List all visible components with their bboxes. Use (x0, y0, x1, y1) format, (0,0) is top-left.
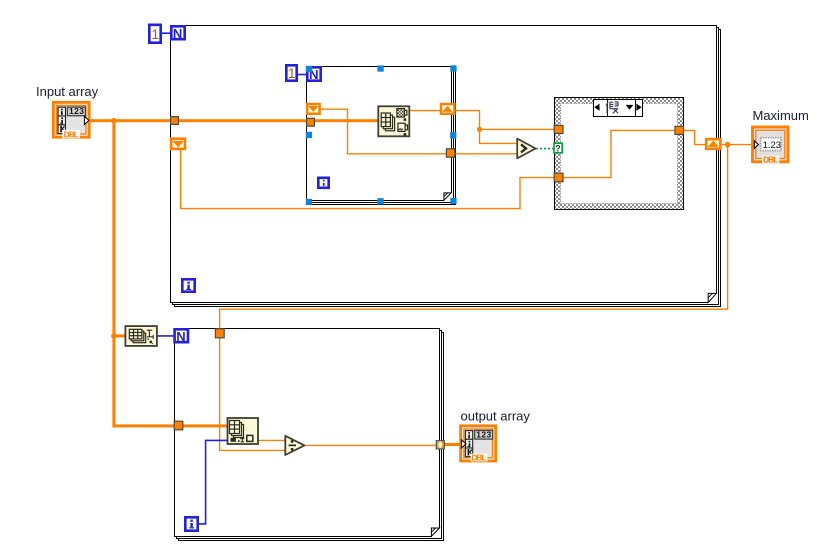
wire Max-Min icon output to right shift register (410, 110, 441, 112)
wire blue const 1 to N inner (298, 74, 307, 76)
wire branch down to greater top input (480, 129, 517, 143)
svg-text:1: 1 (288, 66, 296, 81)
wire green dotted greater output to case selector (536, 148, 554, 150)
wire inner left shift register to lower tunnel and greater input (321, 109, 517, 154)
svg-text:output array: output array (461, 409, 531, 424)
wire blue iteration i to Index Array index input (199, 440, 227, 524)
constant 1 outer (149, 25, 160, 43)
svg-text:123: 123 (69, 106, 84, 116)
svg-text:N: N (176, 329, 185, 344)
function Array Max & Min U1 (378, 106, 409, 136)
wire main array thick horizontal from Input array to Max-Min icon (89, 119, 379, 122)
dogear inner loop (444, 193, 453, 202)
tunnel inner right lower (446, 149, 454, 157)
indicator output array (461, 426, 496, 463)
wire Index Array output to divide x input (258, 439, 285, 441)
wire case right tunnel to outer right shift register (684, 130, 706, 144)
wire array thick into bottom Index Array (112, 424, 227, 427)
tunnel outer left (171, 117, 179, 125)
case structure border (555, 98, 684, 210)
tunnel inner left (307, 118, 315, 126)
tunnel bottom loop right auto-index output (436, 441, 444, 449)
svg-text:Input array: Input array (36, 84, 99, 99)
for-loop inner frames (307, 67, 456, 205)
selector terminal ? (554, 143, 562, 153)
dogear bottom loop (431, 528, 440, 538)
count terminal N bottom (175, 329, 188, 344)
wire thick output tunnel to output array (445, 443, 462, 446)
node junction dot on main wire (111, 118, 117, 124)
function Array Size (125, 326, 156, 346)
wire main array thick vertical trunk (112, 119, 115, 427)
DBL tab (471, 454, 488, 462)
function Index Array (228, 418, 259, 444)
output nub (84, 116, 89, 124)
svg-text:Maximum: Maximum (753, 108, 809, 123)
iteration terminal i bottom (185, 517, 197, 530)
node junction dot at array-size branch (111, 333, 117, 339)
wire feedback Maximum down and left into bottom loop tunnel (220, 145, 728, 329)
DBL tab (762, 155, 779, 163)
case selector label (594, 100, 643, 117)
count terminal N outer (171, 26, 184, 41)
svg-text:DBL: DBL (763, 154, 778, 164)
wire blue const 1 to N outer (162, 32, 171, 34)
svg-text:N: N (173, 26, 182, 41)
svg-text:1.23: 1.23 (763, 140, 782, 151)
top cup (max) (397, 109, 407, 117)
tunnel bottom loop left (array in) (174, 421, 183, 430)
svg-text:1: 1 (151, 26, 159, 42)
bottom cup (min) (398, 123, 408, 131)
node junction dot on Maximum wire (725, 142, 731, 148)
svg-text:DBL: DBL (64, 129, 79, 139)
for-loop bottom frames (175, 329, 444, 541)
svg-text:DBL: DBL (471, 453, 486, 463)
tunnel bottom loop top (maximum in) (215, 329, 224, 338)
constant 1 inner (286, 65, 296, 81)
shift register inner right (441, 104, 454, 114)
control Input array (53, 102, 89, 139)
selection handles on inner loop (306, 65, 457, 205)
svg-text:?: ? (555, 143, 561, 153)
for-loop outer frames (171, 26, 721, 307)
tunnel case left upper (554, 125, 563, 133)
function Divide (285, 436, 304, 455)
shift register outer left (171, 139, 185, 149)
shift register inner left (307, 104, 319, 114)
iteration terminal i inner (318, 178, 328, 188)
function Greater? (517, 139, 535, 159)
wire divide output to loop output tunnel (305, 444, 437, 446)
svg-text:123: 123 (476, 430, 491, 440)
tunnel case left lower (554, 173, 563, 182)
node junction dot at compare branch (477, 127, 482, 132)
wire from top tunnel of bottom loop down to divide y input (220, 338, 285, 450)
DBL tab (62, 130, 80, 138)
input nub (754, 141, 758, 149)
indicator Maximum (753, 127, 789, 164)
wire outer shift register to Maximum indicator (721, 144, 755, 146)
dogear outer loop (708, 293, 717, 303)
count terminal N inner (307, 67, 320, 82)
iteration terminal i outer (182, 279, 194, 291)
input nub (461, 440, 466, 448)
wire outer left shift register to case lower tunnel (181, 150, 555, 209)
wire array branch to Array Size (112, 334, 125, 337)
wire blue Array Size to N bottom (157, 335, 173, 337)
wire inside case redrawn above border (563, 130, 675, 177)
tunnel case right (675, 126, 684, 134)
shift register outer right (706, 139, 720, 149)
wire inner right shift register to case tunnel (456, 111, 555, 130)
